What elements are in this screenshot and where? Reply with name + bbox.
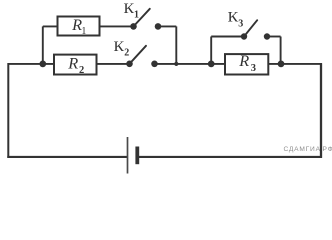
wire: main horizontal right segment (K2 right to right wall) bbox=[155, 63, 323, 65]
svg-text:К: К bbox=[124, 1, 135, 17]
svg-text:1: 1 bbox=[81, 26, 86, 37]
switch K3 lever bbox=[244, 20, 257, 36]
switch K3 left contact bbox=[241, 33, 247, 39]
switch K2 right contact bbox=[151, 61, 158, 68]
svg-text:РФ: РФ bbox=[323, 146, 332, 153]
svg-text:К: К bbox=[228, 9, 239, 25]
wire: K1 right to corner bbox=[158, 25, 176, 27]
svg-text:2: 2 bbox=[124, 47, 129, 58]
wire: K3 bypass right drop bbox=[280, 37, 282, 64]
switch K1 left contact bbox=[130, 23, 137, 30]
resistor R1 box bbox=[58, 17, 100, 36]
wire: main horizontal left segment (node to K2) bbox=[8, 63, 129, 65]
wire: right wall bbox=[320, 63, 322, 158]
node: junction left of R3 bbox=[208, 61, 215, 68]
wire: K3 bypass left riser bbox=[210, 37, 212, 64]
wire: left wall bbox=[7, 63, 9, 158]
svg-text:1: 1 bbox=[134, 9, 139, 20]
switch K1 right contact bbox=[155, 23, 162, 30]
wire: bottom left to battery bbox=[7, 156, 127, 158]
node: K1 branch tee on main line bbox=[174, 62, 178, 66]
svg-text:СДАМГИА: СДАМГИА bbox=[284, 146, 321, 153]
wire: R1 branch horizontal bbox=[43, 25, 134, 27]
svg-text:R: R bbox=[67, 54, 78, 73]
svg-text:К: К bbox=[114, 39, 125, 55]
wire: battery to bottom right bbox=[137, 156, 322, 158]
battery short thick plate (negative) bbox=[135, 147, 139, 165]
node: junction left (R1/R2 split) bbox=[39, 61, 46, 68]
battery long plate (positive) bbox=[127, 137, 129, 174]
switch K2 lever bbox=[130, 46, 147, 64]
wire: K3 bypass right horizontal bbox=[267, 36, 281, 38]
resistor R2 box bbox=[54, 55, 97, 75]
wire: R1 branch riser bbox=[42, 26, 44, 64]
node: junction right of R3 bbox=[278, 61, 285, 68]
wire: K3 bypass left horizontal bbox=[211, 36, 244, 38]
svg-text:R: R bbox=[238, 51, 249, 70]
wire: K1 branch drop to main line bbox=[175, 26, 177, 64]
svg-text:3: 3 bbox=[251, 63, 256, 74]
switch K2 left contact bbox=[126, 61, 133, 68]
switch K1 lever bbox=[134, 9, 150, 27]
switch K3 right contact bbox=[264, 33, 270, 39]
resistor R3 box bbox=[225, 54, 268, 74]
svg-text:2: 2 bbox=[79, 65, 84, 76]
svg-text:3: 3 bbox=[238, 19, 243, 30]
